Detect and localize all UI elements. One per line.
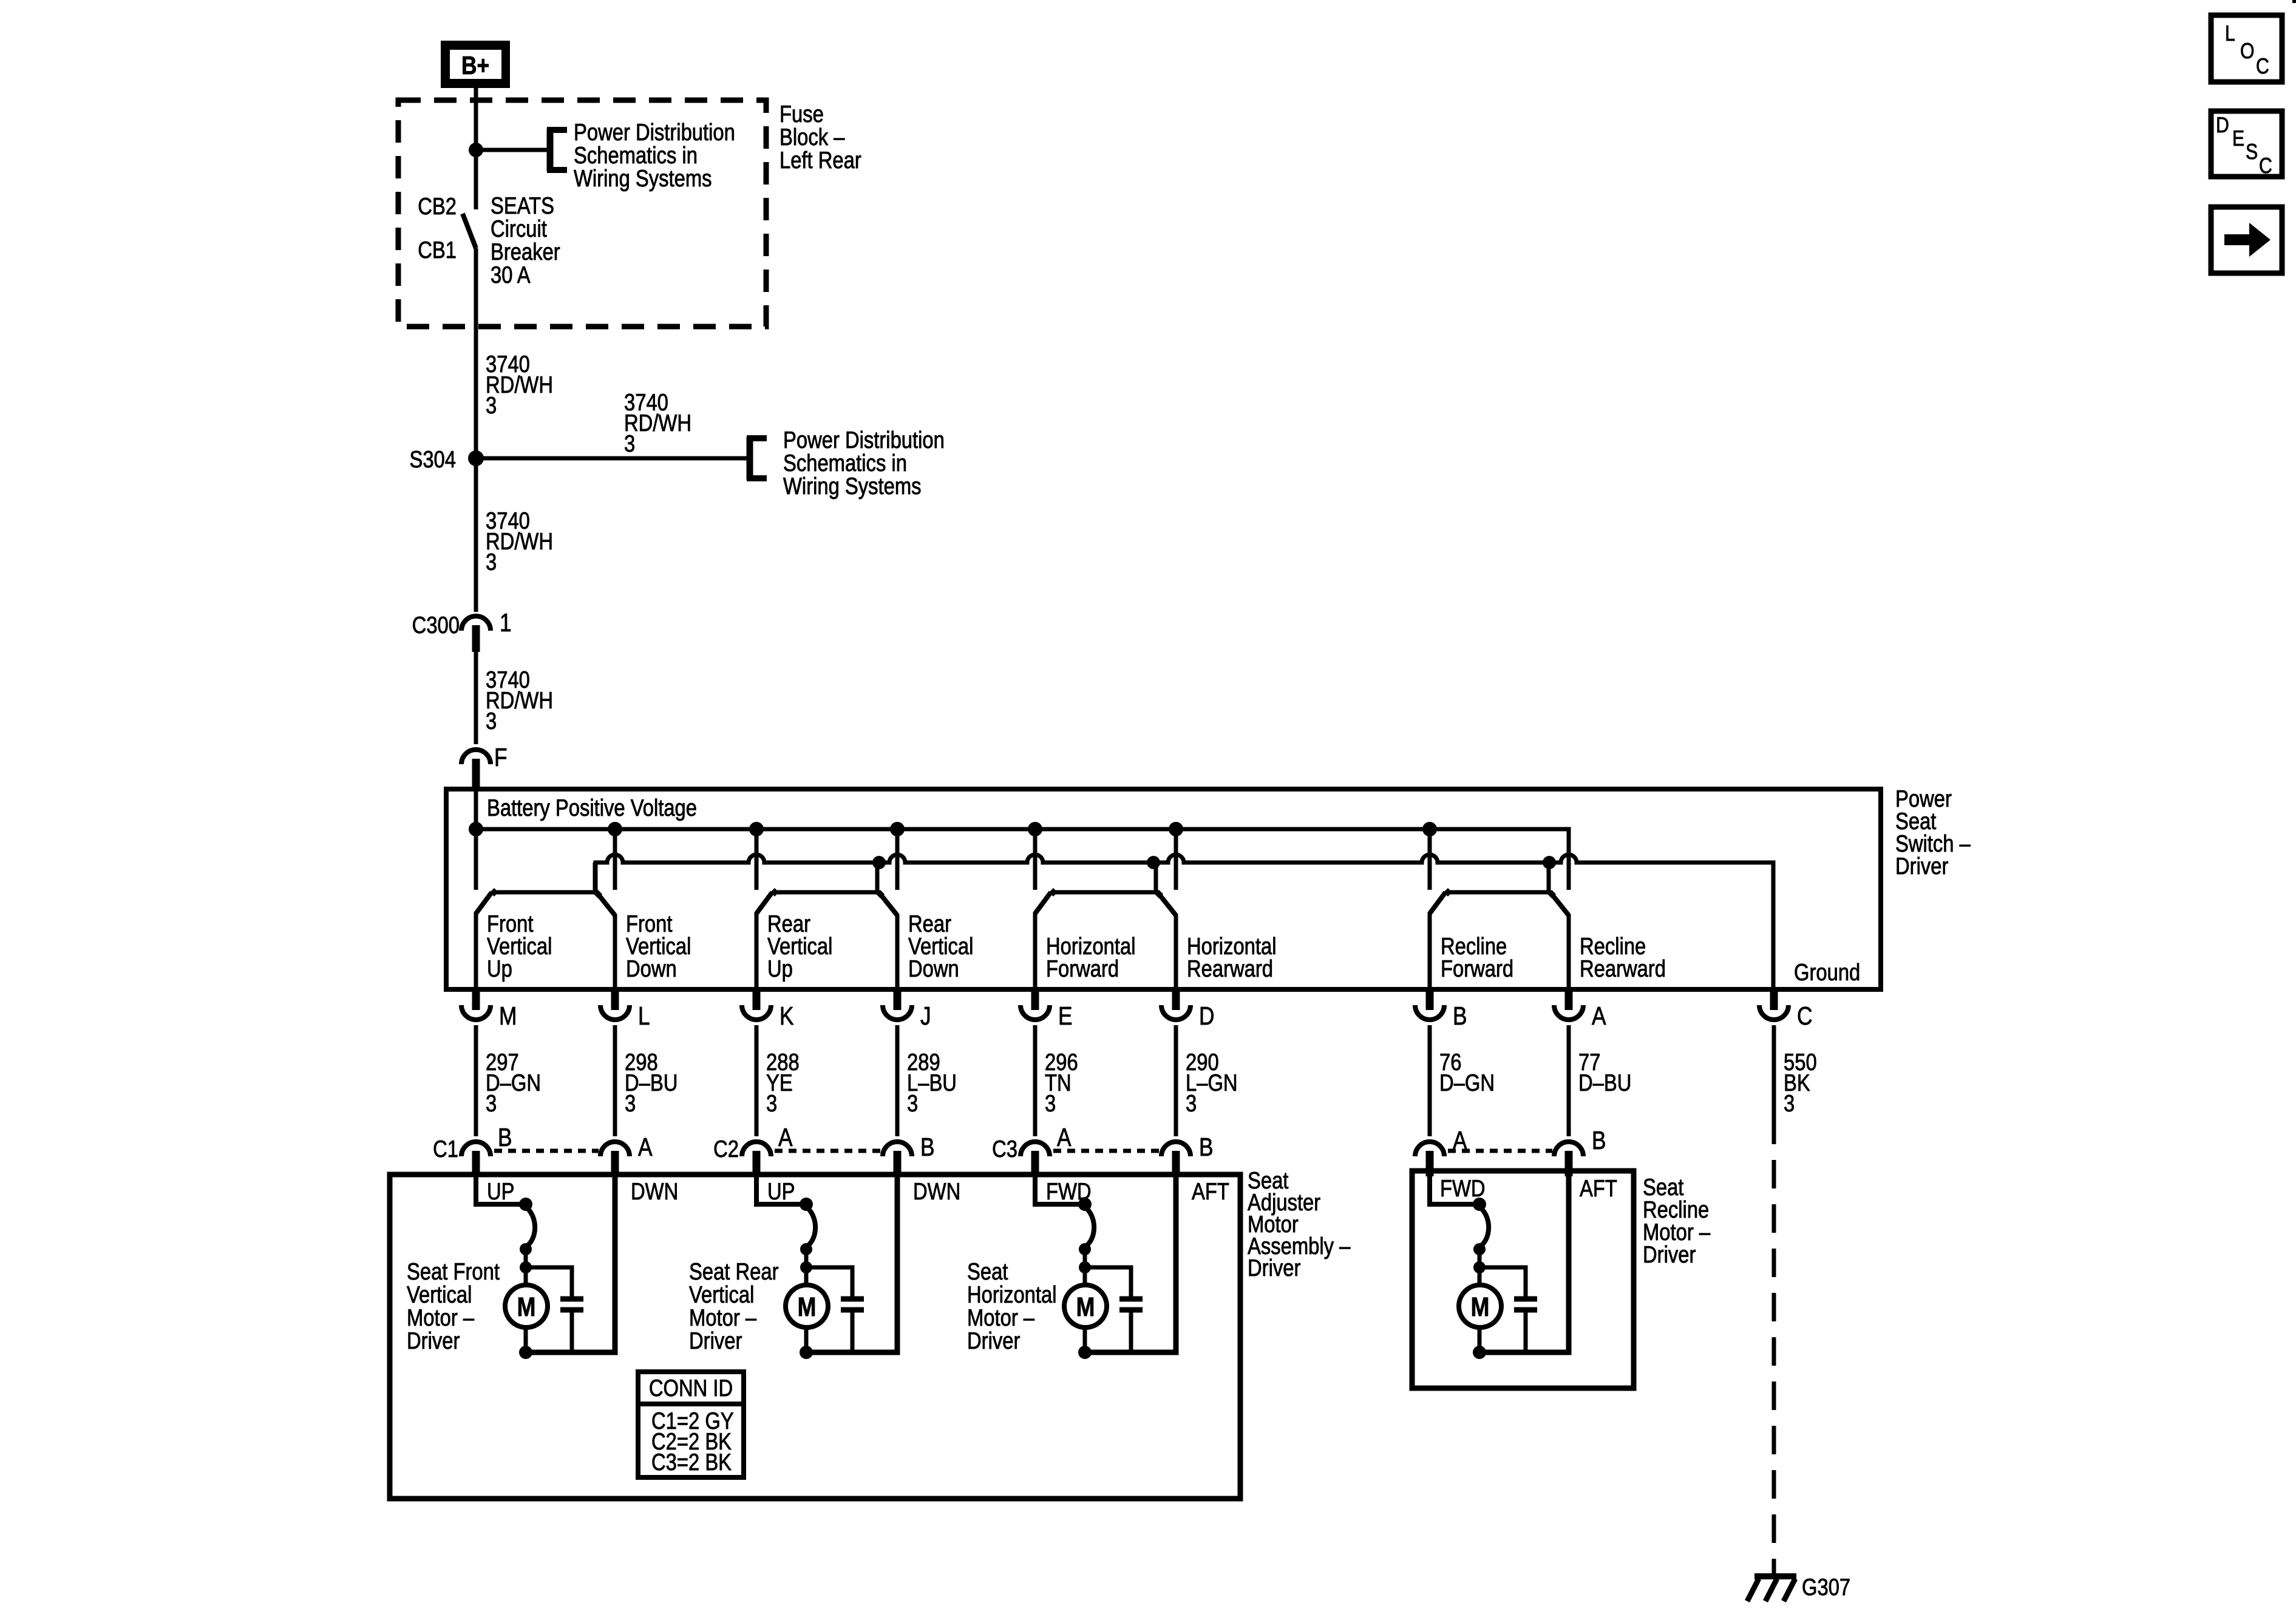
bottom return wire (806, 1176, 897, 1352)
motor brush curve (1087, 1209, 1094, 1246)
wire S304 down to C300 (474, 458, 478, 612)
rail jog (593, 863, 597, 892)
svg-text:Motor –: Motor – (967, 1305, 1034, 1331)
label pin M (499, 1002, 517, 1030)
wire motor to bottom (804, 1327, 809, 1352)
label pin K (779, 1002, 794, 1030)
switch pin C (1759, 989, 1788, 1020)
connector C1 pin B (461, 1142, 491, 1176)
motor feed wire (1035, 1176, 1080, 1204)
svg-text:Driver: Driver (689, 1328, 742, 1354)
motor M (786, 1285, 828, 1327)
blade link line (775, 890, 877, 895)
rail junction node (1147, 856, 1160, 869)
svg-text:Forward: Forward (1441, 956, 1513, 982)
bus junction at column B (1422, 822, 1437, 836)
switch pin J (883, 989, 912, 1020)
svg-text:3: 3 (624, 431, 635, 457)
ground symbol G307 (1747, 1576, 1796, 1601)
label CB2 (418, 194, 457, 220)
label Rear Vertical Up (767, 911, 832, 982)
label pin 1 (500, 608, 512, 637)
fuse block dashed outline (398, 100, 766, 327)
junction node (800, 1198, 813, 1211)
label C1 (433, 1136, 458, 1162)
svg-text:D: D (2216, 112, 2229, 137)
motor feed wire (756, 1176, 801, 1204)
svg-text:Down: Down (908, 956, 959, 982)
svg-text:AFT: AFT (1192, 1179, 1229, 1205)
wire motor to bottom (524, 1327, 528, 1352)
svg-text:B: B (498, 1123, 512, 1151)
svg-text:M: M (1076, 1292, 1095, 1322)
switch column lower segment right (895, 914, 900, 989)
wire label 3740 RD/WH 3 (486, 508, 553, 575)
label Seat Horizontal Motor - Driver (967, 1259, 1056, 1354)
svg-text:Battery Positive Voltage: Battery Positive Voltage (487, 795, 697, 821)
junction node (800, 1243, 812, 1255)
svg-text:A: A (1592, 1002, 1606, 1030)
junction node (1473, 1243, 1486, 1255)
switch column lower segment left (755, 912, 759, 989)
capacitor branch wire (526, 1267, 572, 1299)
svg-text:M: M (517, 1292, 536, 1322)
seat adjuster motor assembly box (390, 1175, 1240, 1499)
svg-text:A: A (1453, 1126, 1467, 1154)
switch blade (left throw) (1430, 892, 1445, 914)
wire (755, 1025, 759, 1136)
label pin A (778, 1123, 793, 1151)
junction node (520, 1243, 532, 1255)
recline connector pin A (1415, 1142, 1444, 1176)
label Horizontal Rearward (1187, 934, 1276, 982)
connector C2 pin B (883, 1142, 912, 1176)
capacitor branch wire (1479, 1267, 1526, 1299)
switch pin D (1161, 989, 1190, 1020)
svg-text:3: 3 (486, 393, 497, 419)
wire (474, 1025, 478, 1136)
wire label 3740 RD/WH 3 (486, 667, 553, 734)
svg-text:3: 3 (486, 549, 497, 575)
svg-text:B: B (1592, 1126, 1606, 1154)
switch column lower segment right (1174, 914, 1178, 989)
label pin L (638, 1002, 650, 1030)
label Seat Recline Motor - Driver (1643, 1175, 1710, 1268)
junction node (1473, 1346, 1486, 1359)
label pin A (1592, 1002, 1606, 1030)
junction node (1473, 1261, 1486, 1273)
label Seat Front Vertical Motor - Driver (407, 1259, 500, 1354)
svg-text:M: M (499, 1002, 517, 1030)
blade link line (1448, 890, 1549, 895)
junction node (800, 1346, 813, 1359)
motor M (1064, 1285, 1107, 1327)
label Front Vertical Up (487, 911, 552, 982)
svg-text:M: M (1471, 1292, 1490, 1322)
svg-text:A: A (778, 1123, 793, 1151)
switch column lower segment left (474, 912, 478, 989)
svg-text:S304: S304 (409, 447, 456, 473)
off-page reference bracket (fuse block) (547, 129, 567, 171)
svg-text:C2: C2 (713, 1136, 739, 1162)
svg-text:CB1: CB1 (418, 237, 457, 263)
svg-text:DWN: DWN (913, 1179, 960, 1205)
switch blade (right throw) (1155, 890, 1163, 898)
wire (613, 1025, 617, 1136)
connector pin F (461, 750, 491, 788)
junction node (519, 1346, 532, 1359)
label UP (487, 1179, 515, 1205)
label DWN (913, 1179, 960, 1205)
label pin B (1592, 1126, 1606, 1154)
label SEATS Circuit Breaker 30 A (491, 193, 560, 288)
svg-text:K: K (779, 1002, 794, 1030)
power symbol B+ (441, 41, 510, 88)
switch column lower segment left (1033, 912, 1038, 989)
label Power Seat Switch - Driver (1895, 786, 1971, 880)
forward arrow icon (2211, 207, 2282, 273)
svg-text:Driver: Driver (967, 1328, 1020, 1354)
label FWD (1046, 1179, 1092, 1205)
label DWN (631, 1179, 678, 1205)
label G307 (1802, 1575, 1850, 1601)
svg-text:3: 3 (1784, 1091, 1795, 1117)
page edge mark (2292, 0, 2296, 3)
wire S304 to off-page bracket (476, 456, 750, 461)
wire (895, 1025, 900, 1136)
svg-text:Driver: Driver (1643, 1242, 1696, 1268)
blade link line (1053, 890, 1156, 895)
bus junction at column E (1028, 822, 1042, 836)
junction node (1079, 1261, 1091, 1273)
label AFT (1192, 1179, 1229, 1205)
junction node (520, 1261, 532, 1273)
svg-text:3: 3 (1186, 1091, 1197, 1117)
svg-text:Seat: Seat (967, 1259, 1008, 1285)
label Battery Positive Voltage (487, 795, 697, 821)
switch pin L (600, 989, 630, 1020)
svg-text:L: L (2225, 21, 2235, 46)
svg-text:Vertical: Vertical (407, 1282, 472, 1308)
bus junction at column D (1169, 822, 1183, 836)
LOC icon (2211, 15, 2282, 82)
svg-text:C: C (2256, 53, 2269, 78)
connector C300 pin 1 (461, 616, 491, 652)
motor brush curve (808, 1209, 815, 1246)
recline connector dashed link (1448, 1149, 1552, 1153)
label AFT (1580, 1176, 1617, 1202)
svg-text:C300: C300 (412, 612, 460, 639)
svg-text:3: 3 (1045, 1091, 1056, 1117)
svg-text:AFT: AFT (1580, 1176, 1617, 1202)
svg-text:A: A (638, 1133, 653, 1161)
wire to off-page bracket (476, 148, 550, 152)
junction node (1078, 1346, 1092, 1359)
svg-text:3: 3 (907, 1091, 918, 1117)
label FWD (1440, 1176, 1486, 1202)
svg-text:Horizontal: Horizontal (967, 1282, 1056, 1308)
switch pin A (1554, 989, 1583, 1020)
junction node (519, 1198, 532, 1211)
label pin A (1453, 1126, 1467, 1154)
svg-text:CB2: CB2 (418, 194, 457, 220)
wire motor to bottom (1478, 1327, 1482, 1352)
rail jog (1547, 863, 1551, 892)
svg-text:O: O (2240, 38, 2255, 63)
svg-text:Circuit: Circuit (491, 216, 547, 242)
svg-text:Fuse: Fuse (779, 101, 824, 127)
label Seat Adjuster Motor Assembly - Driver (1248, 1168, 1351, 1281)
svg-text:Rearward: Rearward (1580, 956, 1666, 982)
label Power Distribution Schematics in Wiring Systems (783, 427, 945, 500)
switch blade (left throw) (1035, 892, 1051, 914)
wire label 297 D–GN (486, 1049, 541, 1117)
svg-text:D–BU: D–BU (1578, 1070, 1631, 1096)
wire breaker to S304 (474, 248, 478, 458)
wire label 77 D–BU (1578, 1049, 1631, 1096)
svg-text:Schematics in: Schematics in (783, 450, 907, 476)
motor brush curve (1481, 1209, 1489, 1246)
label pin D (1199, 1002, 1214, 1030)
wire label 290 L–GN (1186, 1049, 1238, 1117)
label Recline Forward (1441, 934, 1513, 982)
capacitor (1514, 1299, 1537, 1352)
capacitor (1119, 1299, 1143, 1352)
off-page reference bracket (S304) (747, 437, 767, 480)
svg-text:SEATS: SEATS (491, 193, 554, 219)
switch pin M (461, 989, 491, 1020)
label Seat Rear Vertical Motor - Driver (689, 1259, 779, 1354)
ground wire dashed to G307 (1772, 1116, 1776, 1576)
label UP (767, 1179, 795, 1205)
capacitor branch wire (806, 1267, 852, 1299)
wire (1174, 1025, 1178, 1136)
DESC icon (2211, 111, 2282, 178)
svg-text:Wiring Systems: Wiring Systems (783, 473, 922, 500)
svg-text:3: 3 (486, 1091, 497, 1117)
junction node in fuse block (469, 143, 483, 157)
bus junction at column M (469, 822, 483, 836)
svg-text:Block –: Block – (779, 124, 845, 151)
svg-text:Driver: Driver (1895, 853, 1948, 880)
label pin A (1057, 1123, 1072, 1151)
label Recline Rearward (1580, 934, 1666, 982)
connector C2 pin A (742, 1142, 771, 1176)
wire (1567, 1025, 1571, 1136)
label Fuse Block - Left Rear (779, 101, 861, 174)
wire label 289 L–BU (907, 1049, 957, 1117)
wire F into switch (474, 788, 478, 829)
svg-text:Motor –: Motor – (407, 1305, 474, 1331)
svg-text:Vertical: Vertical (689, 1282, 754, 1308)
label Front Vertical Down (626, 911, 691, 982)
svg-text:B: B (1199, 1133, 1214, 1161)
wire label 296 TN (1045, 1049, 1078, 1117)
svg-text:Seat Rear: Seat Rear (689, 1259, 779, 1285)
wire label 288 YE (766, 1049, 800, 1117)
label Ground (1794, 960, 1860, 986)
svg-text:E: E (1058, 1002, 1073, 1030)
motor M (505, 1285, 548, 1327)
svg-text:F: F (494, 743, 508, 771)
CONN ID table (638, 1372, 744, 1477)
svg-text:C1: C1 (433, 1136, 458, 1162)
svg-text:Driver: Driver (407, 1328, 460, 1354)
switch blade (left throw) (756, 892, 772, 914)
svg-text:G307: G307 (1802, 1575, 1850, 1601)
capacitor (841, 1299, 864, 1352)
wire (804, 1249, 809, 1285)
fixed contact stub M (474, 829, 478, 890)
svg-text:Up: Up (767, 956, 793, 982)
svg-text:M: M (798, 1292, 817, 1322)
svg-text:Down: Down (626, 956, 677, 982)
svg-text:E: E (2232, 126, 2244, 151)
svg-text:30 A: 30 A (491, 262, 531, 288)
bus junction at column K (749, 822, 764, 836)
svg-text:UP: UP (487, 1179, 515, 1205)
power seat switch box (446, 789, 1881, 989)
motor feed wire (476, 1176, 521, 1204)
rail jog (875, 863, 880, 892)
label Horizontal Forward (1046, 934, 1135, 982)
svg-text:C: C (2259, 153, 2272, 178)
connector C1 dashed link (494, 1149, 599, 1153)
connector C1 pin A (600, 1142, 630, 1176)
svg-text:L: L (638, 1002, 650, 1030)
label pin J (920, 1002, 931, 1030)
wire label 76 D–GN (1439, 1049, 1495, 1096)
fixed contact stub E (1033, 829, 1038, 890)
wire (1478, 1249, 1482, 1285)
switch pin K (742, 989, 771, 1020)
bottom return wire (1085, 1176, 1176, 1352)
svg-text:Rearward: Rearward (1187, 956, 1273, 982)
connector C3 pin B (1161, 1142, 1190, 1176)
svg-text:Ground: Ground (1794, 960, 1860, 986)
bottom return wire (526, 1176, 615, 1352)
svg-text:C3: C3 (992, 1136, 1017, 1162)
label Power Distribution Schematics in Wiring Systems (574, 120, 735, 192)
svg-text:UP: UP (767, 1179, 795, 1205)
svg-text:C3=2 BK: C3=2 BK (651, 1449, 732, 1476)
svg-text:Motor –: Motor – (689, 1305, 756, 1331)
label pin B (1199, 1133, 1214, 1161)
switch blade (right throw) (594, 890, 602, 898)
rail junction node (872, 856, 886, 869)
recline connector pin B (1554, 1142, 1583, 1176)
switch pin B (1415, 989, 1444, 1020)
svg-text:S: S (2246, 139, 2258, 164)
label C3 (992, 1136, 1017, 1162)
svg-text:B: B (920, 1133, 935, 1161)
fixed contact stub B (1428, 829, 1432, 890)
label pin B (1453, 1002, 1467, 1030)
label pin B (920, 1133, 935, 1161)
capacitor (560, 1299, 583, 1352)
svg-text:Driver: Driver (1248, 1255, 1300, 1281)
bottom return wire (1479, 1176, 1569, 1352)
junction node (1079, 1243, 1091, 1255)
label pin C (1797, 1002, 1812, 1030)
label pin E (1058, 1002, 1073, 1030)
connector C3 pin A (1021, 1142, 1050, 1176)
wire (1428, 1025, 1432, 1136)
fixed contact stub D (1174, 829, 1178, 890)
wire motor to bottom (1083, 1327, 1087, 1352)
fixed contact stub J (895, 829, 900, 890)
svg-text:D–GN: D–GN (1439, 1070, 1495, 1096)
svg-text:Schematics in: Schematics in (574, 143, 698, 169)
svg-text:CONN ID: CONN ID (649, 1375, 733, 1402)
svg-text:C: C (1797, 1002, 1812, 1030)
svg-text:Wiring Systems: Wiring Systems (574, 166, 712, 192)
svg-text:B: B (1453, 1002, 1467, 1030)
motor feed wire (1430, 1176, 1475, 1204)
switch column lower segment right (613, 914, 617, 989)
capacitor branch wire (1085, 1267, 1131, 1299)
bus battery positive voltage (476, 829, 1569, 890)
motor brush curve (528, 1209, 535, 1246)
wire C300 to F (474, 652, 478, 744)
switch pin E (1021, 989, 1050, 1020)
svg-text:DWN: DWN (631, 1179, 678, 1205)
switch blade (left throw) (476, 892, 492, 914)
svg-text:Breaker: Breaker (491, 239, 560, 265)
wire label 550 BK 3 (1784, 1049, 1817, 1117)
svg-text:B+: B+ (461, 51, 489, 80)
label pin A (638, 1133, 653, 1161)
switch blade (right throw) (1547, 890, 1556, 898)
svg-text:Power Distribution: Power Distribution (783, 427, 945, 453)
bus junction at column J (890, 822, 905, 836)
fixed contact stub K (755, 829, 759, 890)
wire (1033, 1025, 1038, 1136)
wire B+ feed inside fuse block (474, 100, 478, 209)
label S304 (409, 447, 456, 473)
fixed contact stub L (613, 829, 617, 890)
svg-text:3: 3 (625, 1091, 636, 1117)
connector C2 dashed link (775, 1149, 881, 1153)
label CB1 (418, 237, 457, 263)
label pin F (494, 743, 508, 771)
bus junction at column L (608, 822, 622, 836)
svg-text:Power Distribution: Power Distribution (574, 120, 735, 146)
switch column lower segment right (1567, 914, 1571, 989)
wire label 3740 RD/WH 3 (486, 351, 553, 419)
seat recline motor box (1412, 1171, 1634, 1388)
svg-text:FWD: FWD (1440, 1176, 1486, 1202)
label Rear Vertical Down (908, 911, 973, 982)
svg-text:J: J (920, 1002, 931, 1030)
svg-text:Up: Up (487, 956, 512, 982)
switch column lower segment left (1428, 912, 1432, 989)
switch blade (right throw) (876, 890, 885, 898)
ground rail (switch common) (596, 855, 1773, 989)
label C300 (412, 612, 460, 639)
blade link line (494, 890, 595, 895)
connector C3 dashed link (1053, 1149, 1160, 1153)
rail junction node (1543, 856, 1556, 869)
motor M (1459, 1285, 1501, 1327)
junction node (1078, 1198, 1092, 1211)
svg-text:FWD: FWD (1046, 1179, 1092, 1205)
splice S304 (468, 450, 484, 466)
circuit breaker CB1/CB2 SEATS 30 A (463, 214, 476, 248)
wire label 3740 RD/WH 3 (624, 390, 691, 457)
svg-text:Forward: Forward (1046, 956, 1119, 982)
wire B+ to fuse block (474, 88, 478, 103)
